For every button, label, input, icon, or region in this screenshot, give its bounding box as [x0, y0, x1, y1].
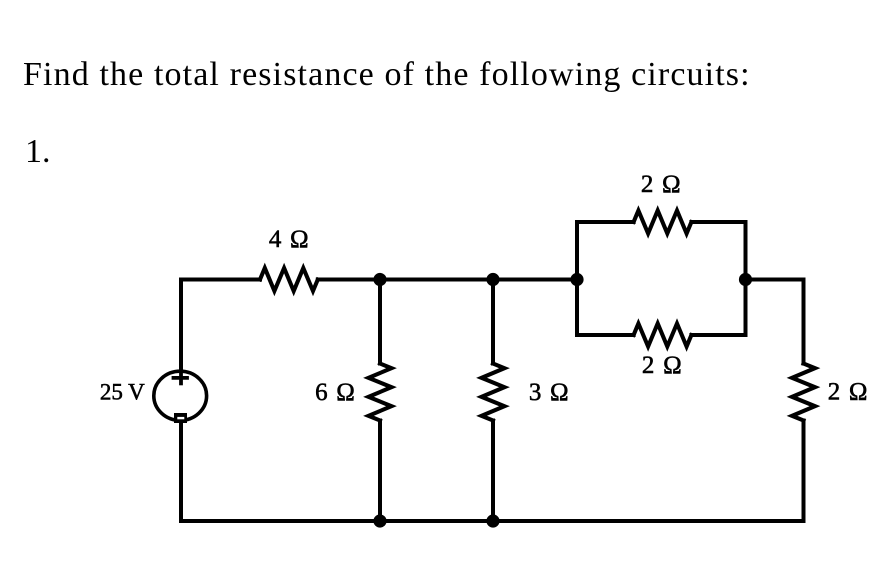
wire parallel box bottom-right segment: [691, 333, 745, 337]
wire parallel box left edge: [575, 222, 579, 335]
voltage source minus terminal: [174, 413, 187, 423]
wire 3-ohm branch upper: [491, 280, 495, 364]
wire 3-ohm branch lower: [491, 421, 495, 522]
voltage source V1 circle: [154, 371, 207, 420]
title text: [23, 56, 751, 94]
svg-text:25 V: 25 V: [100, 380, 145, 405]
node E junction dot (bottom of 6-ohm): [373, 514, 386, 527]
wire parallel box top-right segment: [691, 220, 745, 224]
svg-text:3 Ω: 3 Ω: [529, 379, 570, 406]
node B junction dot (top of 3-ohm): [486, 273, 499, 286]
wire parallel box top-left segment: [577, 220, 634, 224]
voltage source plus terminal: [174, 370, 188, 384]
node F junction dot (bottom of 3-ohm): [486, 514, 499, 527]
svg-text:2 Ω: 2 Ω: [641, 171, 682, 198]
wire source bottom to bottom rail: [179, 422, 183, 521]
resistor R3 2-ohm bottom of parallel box: [634, 324, 692, 347]
wire top-left: from source top to 4-ohm resistor: [181, 280, 260, 370]
wire bottom rail: [181, 519, 804, 523]
svg-text:2 Ω: 2 Ω: [828, 379, 869, 406]
resistor R2 2-ohm top of parallel box: [634, 211, 692, 234]
wire parallel box right edge: [744, 222, 748, 335]
wire right rail lower: [802, 421, 806, 522]
wire box right dot to right rail: [746, 278, 804, 282]
wire 6-ohm branch upper: [378, 280, 382, 364]
svg-text:2 Ω: 2 Ω: [642, 352, 683, 379]
resistor R5 6-ohm vertical zigzag: [369, 364, 392, 421]
wire parallel box bottom-left segment: [577, 333, 634, 337]
resistor R1 4-ohm horizontal zigzag: [260, 268, 318, 291]
svg-text:4 Ω: 4 Ω: [269, 226, 310, 253]
resistor R4 2-ohm right vertical zigzag: [792, 364, 815, 421]
item number 1.: [25, 133, 51, 171]
wire right rail upper: [802, 280, 806, 364]
wire top middle: 4-ohm to node C: [318, 278, 577, 282]
node A junction dot (top of 6-ohm): [373, 273, 386, 286]
node D junction dot (parallel box right): [739, 273, 752, 286]
resistor R6 3-ohm vertical zigzag: [482, 364, 505, 421]
svg-text:6 Ω: 6 Ω: [315, 379, 356, 406]
wire 6-ohm branch lower: [378, 421, 382, 522]
node C junction dot (parallel box left): [570, 273, 583, 286]
